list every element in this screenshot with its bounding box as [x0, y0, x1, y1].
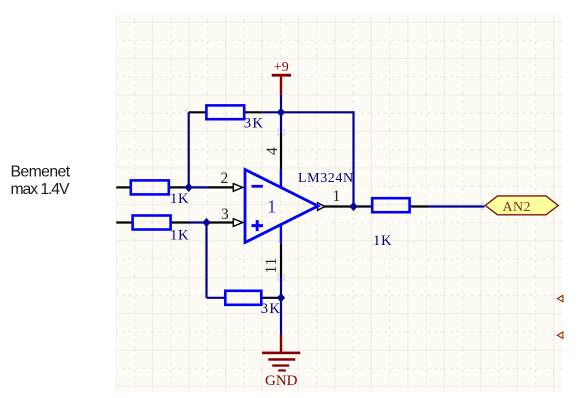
op-amp U1 pin 1 arrow: [318, 203, 325, 211]
op-amp U1 V- internal stub: [280, 224, 282, 243]
wire right vertical to output: [352, 111, 354, 206]
wire power stub to pin4: [280, 95, 282, 132]
op-amp U1 pin 2 arrow: [233, 184, 245, 192]
pin lead R1 left: [116, 186, 131, 188]
ground bar 1: [262, 352, 300, 355]
resistor R2 body (1K lower input): [133, 216, 171, 230]
op-amp U1 pin 3 arrow: [233, 219, 245, 227]
wire output to port: [429, 205, 485, 207]
svg-text:3K: 3K: [244, 116, 264, 132]
clipped port fragment right edge upper: [557, 295, 563, 301]
port AN2 body: [485, 196, 558, 215]
op-amp U1 plus sign: [252, 220, 264, 231]
svg-text:AN2: AN2: [503, 200, 531, 215]
svg-text:4: 4: [264, 147, 281, 155]
svg-text:2: 2: [221, 170, 229, 187]
wire feedback vertical left: [188, 112, 190, 187]
resistor R4 body (3K bottom): [225, 291, 261, 305]
wire input2 from junction: [189, 186, 208, 188]
wire top horizontal: [262, 111, 353, 113]
resistor R5 body (1K output): [372, 198, 409, 212]
op-amp U1 pin 4 line: [280, 132, 282, 170]
svg-text:1K: 1K: [170, 191, 189, 207]
pin lead R3 left: [189, 111, 207, 113]
power port +9 stub: [280, 77, 282, 95]
op-amp U1 pin 11 line: [280, 243, 282, 277]
junction node bottom 3K: [277, 293, 285, 302]
power port +9 bar: [272, 74, 291, 77]
svg-text:+9: +9: [274, 60, 289, 75]
svg-text:1K: 1K: [373, 233, 392, 249]
no-connect marker at pin4 wire end: [277, 129, 285, 136]
op-amp U1 pin 2 line: [208, 186, 234, 188]
pin lead R5 left: [354, 205, 373, 207]
svg-text:1: 1: [333, 188, 341, 205]
ground stub wire: [280, 334, 282, 352]
ground bar 4: [278, 369, 286, 371]
svg-text:max 1.4V: max 1.4V: [11, 181, 70, 198]
op-amp U1 minus sign: [252, 185, 263, 188]
junction node output: [349, 202, 357, 211]
svg-text:11: 11: [263, 257, 280, 274]
svg-text:GND: GND: [265, 373, 298, 389]
junction node input3: [202, 218, 210, 227]
op-amp U1 triangle: [245, 170, 318, 243]
wire pin11 to gnd: [280, 277, 282, 335]
ground bar 3: [272, 364, 289, 366]
ground bar 2: [268, 358, 295, 361]
wire vertical input3 down: [205, 223, 207, 298]
pin lead R1 right: [169, 186, 189, 188]
svg-text:1K: 1K: [170, 228, 189, 244]
pin lead R2 right: [170, 221, 189, 223]
pin lead R3 right: [244, 111, 262, 113]
resistor R1 body (1K upper input): [131, 180, 169, 194]
svg-text:3: 3: [221, 206, 229, 223]
corner marker at feedback wire corner: [185, 110, 187, 112]
svg-text:LM324N: LM324N: [298, 171, 354, 186]
op-amp U1 pin 3 line: [207, 221, 234, 223]
wire input3 segment: [189, 221, 207, 223]
op-amp U1 V+ internal stub: [280, 170, 282, 189]
svg-text:3K: 3K: [261, 301, 281, 317]
resistor R3 body (3K top feedback): [206, 105, 244, 119]
pin lead R2 left: [116, 221, 132, 223]
svg-text:Bemenet: Bemenet: [11, 164, 71, 181]
clipped port fragment right edge lower: [557, 332, 563, 338]
junction node power top: [277, 108, 285, 117]
junction node feedback/input2: [185, 183, 193, 192]
pin lead R5 right: [410, 205, 429, 207]
svg-text:1: 1: [267, 196, 276, 216]
wire bottom horizontal to 3K: [207, 297, 227, 299]
sheet background: [116, 15, 563, 392]
no-connect marker at pin11 wire end: [277, 274, 285, 281]
no-connect marker at port wire end: [481, 202, 484, 210]
op-amp U1 pin 1 line: [324, 205, 354, 207]
pin lead R4 right: [261, 297, 281, 299]
